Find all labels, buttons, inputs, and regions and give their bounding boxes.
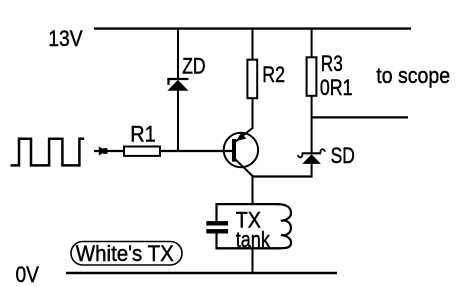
svg-text:R1: R1 — [130, 121, 155, 146]
svg-text:0V: 0V — [16, 262, 40, 287]
svg-text:0R1: 0R1 — [320, 75, 353, 100]
svg-text:ZD: ZD — [182, 53, 205, 78]
svg-text:White's TX: White's TX — [76, 241, 174, 266]
svg-text:R2: R2 — [262, 62, 285, 87]
svg-text:tank: tank — [236, 227, 271, 252]
svg-text:SD: SD — [331, 143, 355, 168]
svg-text:13V: 13V — [48, 26, 83, 51]
svg-text:to scope: to scope — [376, 63, 450, 88]
svg-text:R3: R3 — [321, 51, 343, 76]
